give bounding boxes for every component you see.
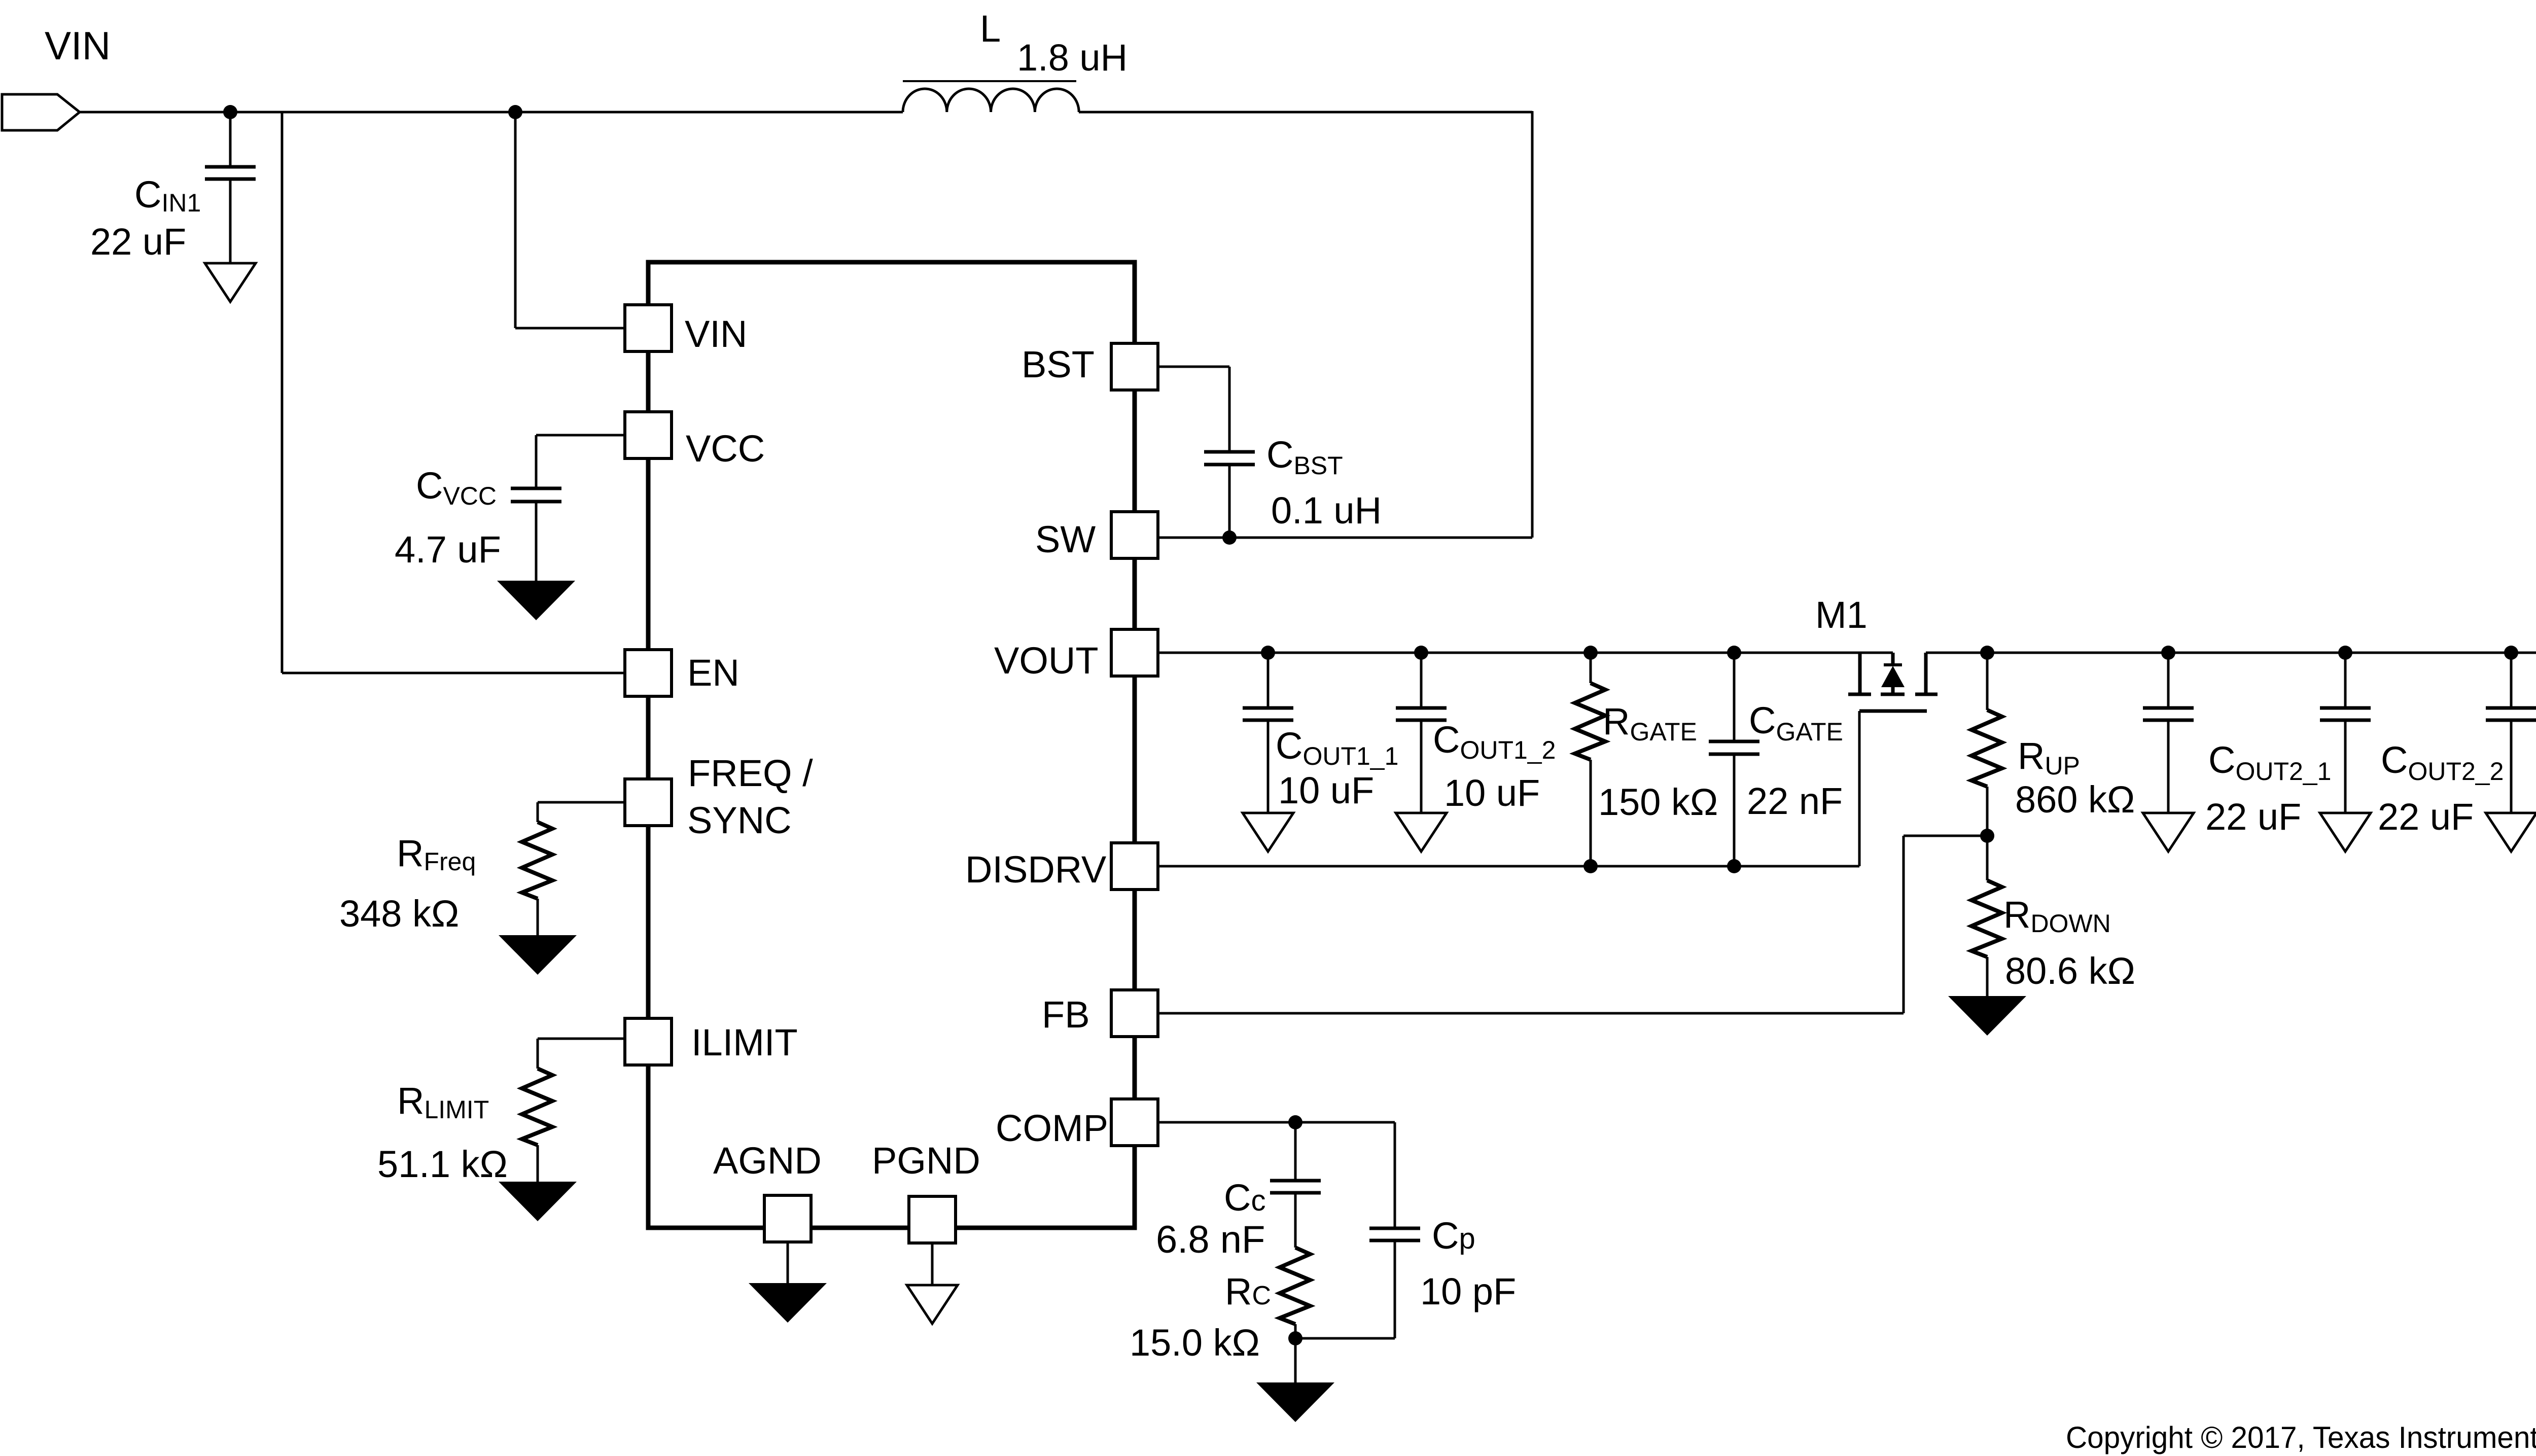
- wire ILIMIT horizontal: [538, 1038, 648, 1040]
- svg-text:COMP: COMP: [996, 1107, 1108, 1149]
- svg-text:M1: M1: [1815, 594, 1868, 636]
- wire CVCC lower: [535, 501, 538, 582]
- node junction VOUT / RGATE: [1583, 646, 1598, 660]
- wire CVCC upper: [535, 435, 538, 489]
- node junction VIN rail / VIN pin: [508, 105, 522, 119]
- svg-text:22 nF: 22 nF: [1747, 780, 1843, 822]
- wire COUT2_2 upper: [2344, 653, 2347, 709]
- ground Rc (filled): [1256, 1382, 1334, 1422]
- resistor RUP: [1971, 710, 2002, 787]
- wire COUT1_2 lower: [1420, 719, 1423, 814]
- wire VCC horizontal: [536, 434, 648, 437]
- wire DISDRV row: [1135, 865, 1859, 868]
- pin VIN box: [625, 305, 672, 351]
- ground RFreq (filled): [499, 935, 577, 975]
- ground COUT1_1 (open): [1243, 813, 1293, 851]
- svg-text:RUP: RUP: [2018, 735, 2080, 780]
- svg-text:RGATE: RGATE: [1603, 700, 1697, 746]
- wire COUT1_1 upper: [1267, 653, 1270, 709]
- svg-text:DISDRV: DISDRV: [965, 848, 1107, 891]
- wire RFreq to ground: [537, 899, 539, 936]
- wire CGATE lower: [1733, 753, 1736, 866]
- node junction Rc / Cp: [1288, 1331, 1302, 1345]
- wire COUT2_1 upper: [2167, 653, 2170, 709]
- svg-text:COUT1_2: COUT1_2: [1433, 719, 1556, 764]
- capacitor COUT2_3: [2486, 708, 2536, 720]
- node junction VIN rail / CIN1: [223, 105, 237, 119]
- svg-text:10 uF: 10 uF: [1278, 769, 1374, 811]
- wire Cc to Rc: [1294, 1192, 1297, 1248]
- svg-text:Cp: Cp: [1432, 1215, 1475, 1257]
- resistor RLIMIT: [522, 1069, 552, 1145]
- capacitor COUT2_1: [2143, 708, 2194, 720]
- ground COUT2_2 (open): [2320, 813, 2371, 851]
- svg-text:VIN: VIN: [685, 313, 747, 355]
- node junction SW / CBST: [1222, 530, 1237, 545]
- wire COUT1_1 lower: [1267, 719, 1270, 814]
- wire VIN pin horizontal: [515, 327, 648, 330]
- svg-text:RDOWN: RDOWN: [2003, 894, 2111, 938]
- node junction VOUT / COUT1_1: [1261, 646, 1275, 660]
- pin SW box: [1111, 512, 1158, 558]
- wire PGND stub: [931, 1243, 934, 1286]
- ground RDOWN (filled): [1948, 996, 2026, 1036]
- svg-text:4.7 uF: 4.7 uF: [395, 528, 501, 571]
- capacitor CBST: [1204, 452, 1255, 465]
- wire RLIMIT to ground: [537, 1145, 539, 1183]
- svg-text:VOUT: VOUT: [994, 640, 1099, 682]
- pin VCC box: [625, 412, 672, 458]
- ground COUT2_1 (open): [2143, 813, 2194, 851]
- svg-text:COUT2_1: COUT2_1: [2208, 739, 2331, 786]
- ground CIN1 (open): [205, 263, 256, 302]
- node junction VOUT2 / COUT2_1: [2161, 646, 2175, 660]
- svg-text:80.6 kΩ: 80.6 kΩ: [2005, 950, 2135, 992]
- svg-text:ILIMIT: ILIMIT: [691, 1021, 798, 1063]
- wire RUP lead: [1986, 653, 1989, 710]
- ground RLIMIT (filled): [499, 1182, 577, 1221]
- ground COUT2_3 (open): [2486, 813, 2536, 851]
- svg-text:FREQ /: FREQ /: [688, 752, 813, 794]
- resistor RGATE: [1575, 683, 1605, 760]
- node junction DISDRV / RGATE: [1583, 859, 1598, 873]
- ground COUT1_2 (open): [1396, 813, 1447, 851]
- wire RDOWN lead: [1986, 836, 1989, 880]
- svg-text:COUT2_2: COUT2_2: [2381, 739, 2504, 786]
- wire SW row: [1135, 537, 1532, 539]
- pin VOUT box: [1111, 629, 1158, 676]
- svg-text:COUT1_1: COUT1_1: [1276, 725, 1398, 770]
- svg-text:CVCC: CVCC: [416, 465, 497, 510]
- wire output rail: [1926, 652, 2536, 654]
- node junction VOUT2 / COUT2_3: [2504, 646, 2518, 660]
- wire CGATE upper: [1733, 653, 1736, 741]
- wire COMP row: [1135, 1121, 1395, 1124]
- ground AGND (filled): [749, 1283, 827, 1323]
- wire RGATE to DISDRV row: [1590, 760, 1592, 866]
- node junction VOUT2 / COUT2_2: [2338, 646, 2352, 660]
- resistor RDOWN: [1971, 880, 2002, 957]
- inductor L: [903, 81, 1079, 112]
- wire CBST lower: [1228, 464, 1231, 538]
- svg-text:RFreq: RFreq: [397, 832, 476, 876]
- svg-text:22 uF: 22 uF: [2378, 796, 2474, 838]
- wire RLIMIT lead: [537, 1039, 539, 1069]
- transistor M1 (MOSFET with body diode): [1848, 653, 1938, 711]
- svg-text:SW: SW: [1035, 518, 1096, 560]
- wire FB link vertical: [1903, 836, 1905, 1013]
- svg-text:RC: RC: [1225, 1270, 1271, 1312]
- svg-text:Copyright © 2017, Texas Instru: Copyright © 2017, Texas Instruments Inco…: [2066, 1421, 2536, 1454]
- ground PGND (open): [907, 1285, 958, 1324]
- wire Rc ground stub: [1294, 1338, 1297, 1383]
- pin PGND box: [909, 1196, 956, 1243]
- wire EN horizontal: [282, 672, 648, 674]
- svg-text:AGND: AGND: [713, 1140, 822, 1182]
- svg-text:860 kΩ: 860 kΩ: [2015, 778, 2135, 821]
- svg-text:10 uF: 10 uF: [1444, 772, 1540, 814]
- pin FREQ/SYNC box: [625, 779, 672, 826]
- wire AGND stub: [787, 1242, 789, 1284]
- terminal VIN: [2, 94, 80, 130]
- svg-text:348 kΩ: 348 kΩ: [339, 893, 459, 935]
- wire CIN1 branch upper: [229, 112, 232, 168]
- svg-text:PGND: PGND: [872, 1140, 980, 1182]
- svg-text:51.1 kΩ: 51.1 kΩ: [377, 1143, 508, 1185]
- wire CIN1 branch lower: [229, 178, 232, 264]
- resistor Rc: [1280, 1248, 1310, 1324]
- pin BST box: [1111, 343, 1158, 390]
- svg-text:BST: BST: [1022, 343, 1095, 385]
- wire Cc upper: [1294, 1122, 1297, 1182]
- svg-text:CBST: CBST: [1266, 434, 1343, 480]
- pin FB box: [1111, 990, 1158, 1037]
- wire Cp drop: [1394, 1122, 1396, 1229]
- svg-text:0.1 uH: 0.1 uH: [1271, 489, 1382, 531]
- pin AGND box: [764, 1195, 811, 1242]
- wire COUT2_2 lower: [2344, 719, 2347, 814]
- svg-text:6.8 nF: 6.8 nF: [1156, 1218, 1265, 1261]
- resistor RFreq: [522, 822, 552, 899]
- wire Cp bottom link: [1295, 1337, 1395, 1340]
- capacitor COUT1_2: [1396, 708, 1447, 720]
- svg-text:FB: FB: [1042, 993, 1090, 1036]
- wire Rc to node: [1294, 1324, 1297, 1338]
- svg-text:10 pF: 10 pF: [1420, 1270, 1516, 1312]
- node junction VOUT / COUT1_2: [1414, 646, 1428, 660]
- IC U1 body: [648, 262, 1135, 1228]
- svg-text:CGATE: CGATE: [1749, 699, 1843, 746]
- node junction FB divider: [1980, 829, 1994, 843]
- wire EN drop: [281, 112, 284, 673]
- wire COUT2_3 lower: [2510, 719, 2513, 814]
- capacitor CGATE: [1709, 741, 1759, 754]
- capacitor COUT2_2: [2320, 708, 2371, 720]
- wire RDOWN to ground: [1986, 957, 1989, 997]
- wire inductor-right drop to SW: [1531, 111, 1534, 538]
- pin DISDRV box: [1111, 843, 1158, 890]
- pin EN box: [625, 650, 672, 696]
- wire M1 gate riser: [1858, 711, 1861, 866]
- wire VOUT row: [1135, 652, 1893, 654]
- svg-text:22 uF: 22 uF: [2205, 796, 2301, 838]
- wire VIN rail right of inductor: [1079, 111, 1532, 114]
- wire COUT2_3 upper: [2510, 653, 2513, 709]
- node junction COMP / Cc: [1288, 1115, 1302, 1129]
- wire RFreq lead: [537, 802, 539, 822]
- capacitor COUT1_1: [1243, 708, 1293, 720]
- svg-text:Cc: Cc: [1224, 1177, 1265, 1219]
- svg-text:15.0 kΩ: 15.0 kΩ: [1130, 1322, 1260, 1364]
- svg-text:SYNC: SYNC: [687, 799, 792, 841]
- capacitor Cc: [1270, 1181, 1321, 1193]
- svg-text:CIN1: CIN1: [134, 173, 201, 217]
- capacitor CVCC: [511, 488, 561, 502]
- wire BST horizontal: [1135, 366, 1229, 368]
- wire FB node horizontal: [1904, 835, 1987, 837]
- svg-text:VIN: VIN: [45, 23, 111, 68]
- node junction VOUT / CGATE: [1727, 646, 1741, 660]
- pin COMP box: [1111, 1099, 1158, 1146]
- capacitor Cp: [1369, 1228, 1420, 1240]
- svg-text:1.8 uH: 1.8 uH: [1017, 37, 1128, 79]
- svg-text:RLIMIT: RLIMIT: [397, 1080, 489, 1124]
- wire COUT1_2 upper: [1420, 653, 1423, 709]
- wire VIN pin drop: [514, 112, 517, 328]
- svg-text:L: L: [980, 8, 1001, 50]
- wire CBST upper: [1228, 367, 1231, 453]
- wire FB row: [1135, 1012, 1904, 1015]
- wire COUT2_1 lower: [2167, 719, 2170, 814]
- pin ILIMIT box: [625, 1018, 672, 1065]
- wire VIN rail left of inductor: [80, 111, 903, 114]
- svg-text:150 kΩ: 150 kΩ: [1598, 781, 1718, 823]
- svg-text:22 uF: 22 uF: [90, 221, 186, 263]
- wire Cp lower: [1394, 1239, 1396, 1338]
- svg-text:VCC: VCC: [686, 428, 765, 470]
- capacitor CIN1: [205, 167, 256, 179]
- wire RGATE lead: [1590, 653, 1592, 683]
- svg-text:EN: EN: [687, 652, 739, 694]
- ground CVCC (filled): [497, 581, 575, 620]
- wire FREQ horizontal: [538, 801, 648, 804]
- node junction VOUT2 / RUP: [1980, 646, 1994, 660]
- wire RUP to FB node: [1986, 787, 1989, 836]
- node junction DISDRV / CGATE: [1727, 859, 1741, 873]
